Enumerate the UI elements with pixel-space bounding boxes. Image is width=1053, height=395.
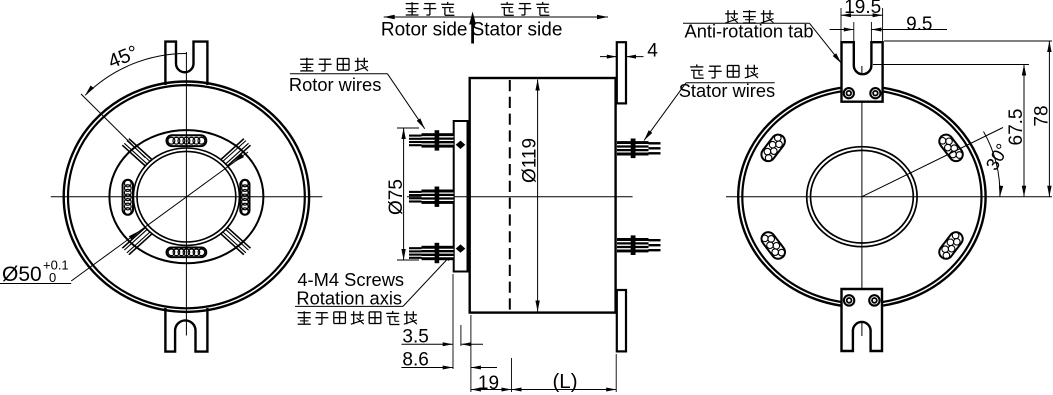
right view SE slot <box>936 229 965 261</box>
dim 67.5 line <box>1022 65 1026 197</box>
dim 3.5 text <box>402 327 428 348</box>
section axis dashed line <box>509 80 511 311</box>
4-M4 label underline+leader <box>295 252 455 307</box>
rotor side EN <box>381 20 468 41</box>
rotor side CN <box>406 2 455 15</box>
svg-text:19: 19 <box>478 373 499 394</box>
dim 19.5 text <box>844 0 881 18</box>
left view outer flange inner circle <box>68 85 305 308</box>
right view bottom tab screw left <box>844 295 854 305</box>
dim (L) line <box>512 388 617 392</box>
Ø50 leader arrow NE <box>233 154 244 163</box>
dim 78 line <box>1047 41 1051 197</box>
rotor wire bundle bottom <box>409 243 454 263</box>
4-M4 screws label EN1 <box>297 269 404 290</box>
svg-text:(L): (L) <box>552 370 577 393</box>
dim 19 text <box>478 373 499 394</box>
ext line body right edge <box>615 354 617 392</box>
dim 8.6 line <box>401 366 497 370</box>
svg-text:Rotor wires: Rotor wires <box>289 74 381 95</box>
left view outer flange circle <box>64 82 309 312</box>
svg-text:Ø50: Ø50 <box>2 263 42 286</box>
rotor wires label EN <box>289 74 381 95</box>
right view bore chamfer circle <box>807 147 917 247</box>
side label line with arrows <box>384 15 608 19</box>
svg-text:Rotor side: Rotor side <box>381 20 468 41</box>
left view rotor ring circle <box>109 130 263 263</box>
dim 19 line <box>471 388 512 392</box>
svg-text:8.6: 8.6 <box>402 350 428 371</box>
left view N slot with spring beads <box>167 135 207 146</box>
left view M4 screw hole marks NW <box>122 139 152 166</box>
stator wire bundle bottom <box>617 235 661 255</box>
45 degree radial extension line <box>81 94 145 158</box>
anti-rotation tab label EN <box>685 21 814 42</box>
rotor wire bundle top <box>409 130 454 150</box>
dim 19.5 ext lines <box>841 8 883 42</box>
rotor wires label CN <box>300 58 368 71</box>
left view S slot with spring beads <box>167 248 207 258</box>
30 degree text <box>982 140 1013 174</box>
svg-text:67.5: 67.5 <box>1006 109 1027 146</box>
right view top anti-rotation tab <box>842 42 883 101</box>
dim 9.5 line <box>830 28 947 32</box>
left view bottom anti-rotation tab <box>165 308 207 352</box>
middle horizontal centerline <box>407 196 633 198</box>
Ø50 leader line <box>71 152 248 281</box>
ext line section axis <box>511 358 513 392</box>
Ø50 dimension text <box>2 263 42 286</box>
dim 67.5 text <box>1006 109 1027 146</box>
svg-text:Stator side: Stator side <box>472 20 563 41</box>
dim 19.5 line <box>841 13 883 17</box>
dim 8.6 text <box>402 350 428 371</box>
Ø75 extension ticks <box>397 128 419 260</box>
right view bottom anti-rotation tab <box>842 289 883 351</box>
Ø50 tolerance 0 <box>49 270 56 285</box>
rotor-stator divider arrow <box>469 12 476 44</box>
ext line plate left edge <box>452 274 454 369</box>
anti-rotation tab side view bottom <box>617 290 626 351</box>
Ø75 dimension line <box>401 128 405 260</box>
left view W slot with spring beads <box>123 180 133 215</box>
stator side EN <box>472 20 563 41</box>
left view M4 screw hole marks NE <box>221 139 251 166</box>
right view SW slot <box>759 229 788 261</box>
stator wires label EN <box>679 80 776 101</box>
svg-text:Rotation axis: Rotation axis <box>296 288 402 309</box>
svg-text:4: 4 <box>647 41 658 62</box>
rotor wires label underline+leader <box>290 74 425 129</box>
stator side CN <box>501 2 550 15</box>
dim 9.5 ext lines <box>854 22 872 46</box>
right view NE slot <box>937 132 966 164</box>
4-M4 screws label CN <box>298 311 417 325</box>
right view bottom tab screw right <box>869 295 879 305</box>
dim 78 ext line <box>884 40 1052 42</box>
svg-text:Ø75: Ø75 <box>386 179 407 215</box>
Ø75 text <box>386 179 407 215</box>
Ø50 tolerance +0.1 <box>43 258 69 273</box>
svg-text:Ø119: Ø119 <box>520 138 541 183</box>
rotor wire bundle middle <box>409 187 454 207</box>
left view horizontal centerline <box>51 196 323 198</box>
svg-text:19.5: 19.5 <box>844 0 881 18</box>
M4 screw diamond bottom <box>456 244 466 252</box>
svg-text:3.5: 3.5 <box>402 327 428 348</box>
stator body rectangle <box>470 78 616 313</box>
stator wires underline+leader <box>644 83 775 141</box>
left view bore chamfer circle <box>133 148 239 245</box>
ext line 3.5 feature <box>460 325 462 346</box>
left view vertical centerline <box>185 52 187 336</box>
ext line body left edge <box>470 315 472 392</box>
svg-text:78: 78 <box>1032 105 1053 126</box>
dim 4 line <box>600 55 644 59</box>
dim 4 text <box>647 41 658 62</box>
right view vertical centerline <box>861 66 863 336</box>
dim (L) text <box>552 370 577 393</box>
right view bore circle <box>811 150 914 243</box>
Ø119 text <box>520 138 541 183</box>
45 degree text <box>105 42 141 74</box>
dim 67.5 ext line <box>873 64 1029 66</box>
anti-rotation tab side view top <box>617 42 626 103</box>
dim 78 text <box>1032 105 1053 126</box>
45 degree dimension arc <box>85 53 186 95</box>
30 degree diagonal line <box>862 128 1003 197</box>
left view bore circle Ø50 <box>137 151 236 242</box>
4-M4 screws label EN2 <box>296 288 402 309</box>
dim 9.5 text <box>906 14 932 35</box>
left view E slot with spring beads <box>240 180 249 215</box>
M4 screw diamond top <box>456 141 466 149</box>
right view horizontal centerline <box>726 196 1052 198</box>
Ø50 leader arrow SW <box>129 231 140 240</box>
svg-text:0: 0 <box>49 270 56 285</box>
right view outer inner circle <box>742 90 981 304</box>
right view top tab screw right <box>870 88 880 98</box>
left view top anti-rotation tab <box>165 42 207 85</box>
anti-rotation tab label CN <box>725 10 773 23</box>
dim 3.5 line <box>401 342 483 346</box>
right view NW slot <box>759 132 788 164</box>
stator wires label CN <box>690 64 758 78</box>
stator wire bundle top <box>617 139 661 159</box>
left view M4 screw hole marks SW <box>122 227 152 254</box>
svg-text:9.5: 9.5 <box>906 14 932 35</box>
Ø119 dimension line <box>535 80 539 312</box>
rotor flange plate <box>454 121 468 272</box>
anti-rotation tab underline+leader <box>683 23 841 63</box>
right view outer circle <box>738 86 985 307</box>
Ø50 leader underline <box>0 283 71 285</box>
left view M4 screw hole marks SE <box>221 227 251 254</box>
right view top tab screw left <box>844 88 854 98</box>
30 degree arc <box>984 132 1004 197</box>
